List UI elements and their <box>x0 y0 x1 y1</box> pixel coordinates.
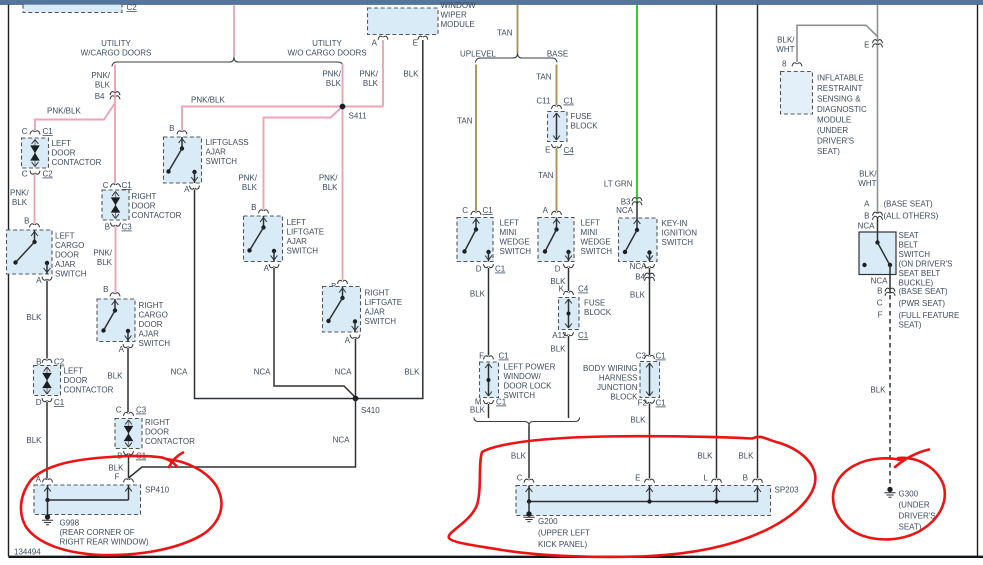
right cargo door ajar switch <box>97 299 135 342</box>
svg-text:C4: C4 <box>564 146 575 155</box>
svg-text:IGNITION: IGNITION <box>662 229 698 238</box>
svg-text:A: A <box>864 200 870 209</box>
svg-text:S411: S411 <box>349 112 368 121</box>
ground G998 <box>42 514 53 525</box>
svg-text:F: F <box>878 311 883 320</box>
svg-text:DOOR: DOOR <box>139 320 163 329</box>
svg-text:BLOCK: BLOCK <box>610 393 638 402</box>
svg-text:JUNCTION: JUNCTION <box>597 383 638 392</box>
body wiring harness junction block <box>640 362 660 398</box>
svg-text:NCA: NCA <box>630 262 648 271</box>
svg-text:TAN: TAN <box>457 117 473 126</box>
svg-text:B: B <box>251 203 256 212</box>
fuse block (lower) <box>559 298 580 330</box>
wire BLK/WHT down to seat belt switch <box>877 47 879 214</box>
wire BLK right cargo switch to lower right door contactor <box>127 348 129 412</box>
svg-text:BLK: BLK <box>630 291 646 300</box>
svg-text:SWITCH: SWITCH <box>581 247 613 256</box>
svg-text:C2: C2 <box>43 170 54 179</box>
svg-text:CONTACTOR: CONTACTOR <box>145 437 195 446</box>
svg-text:AJAR: AJAR <box>365 308 386 317</box>
svg-text:BLK: BLK <box>738 452 754 461</box>
svg-text:B: B <box>103 285 108 294</box>
svg-text:CARGO: CARGO <box>55 241 84 250</box>
right door contactor (lower) <box>115 419 142 449</box>
svg-text:RIGHT: RIGHT <box>132 192 157 201</box>
red annotation circle around G300 <box>833 458 945 540</box>
svg-text:BLK: BLK <box>242 183 258 192</box>
svg-text:LEFT: LEFT <box>581 219 601 228</box>
svg-text:WIPER: WIPER <box>441 11 467 20</box>
svg-text:SWITCH: SWITCH <box>504 391 536 400</box>
wire PNK/BLK brace to S411 <box>342 64 344 107</box>
svg-text:A: A <box>372 39 378 48</box>
wire TAN brace to left mini wedge switch <box>475 65 477 212</box>
left door contactor (upper) <box>22 138 49 168</box>
svg-text:PNK/BLK: PNK/BLK <box>191 96 225 105</box>
svg-text:TAN: TAN <box>497 29 513 38</box>
svg-text:(ALL OTHERS): (ALL OTHERS) <box>884 212 939 221</box>
svg-text:C1: C1 <box>483 206 494 215</box>
svg-text:FUSE: FUSE <box>584 299 605 308</box>
svg-text:LIFTGATE: LIFTGATE <box>287 228 325 237</box>
svg-text:KICK PANEL): KICK PANEL) <box>538 540 588 549</box>
svg-text:C1: C1 <box>499 352 510 361</box>
svg-text:SWITCH: SWITCH <box>662 238 694 247</box>
wire PNK/BLK diagonal branch to left door contactor <box>35 103 115 131</box>
brace UPLEVEL/BASE split <box>476 53 558 63</box>
svg-text:BLK: BLK <box>95 81 111 90</box>
svg-text:C4: C4 <box>578 285 589 294</box>
svg-text:B4: B4 <box>635 273 645 282</box>
svg-text:LEFT POWER: LEFT POWER <box>504 363 556 372</box>
svg-text:PNK/: PNK/ <box>10 189 29 198</box>
svg-text:LEFT: LEFT <box>500 219 520 228</box>
svg-text:WINDOW/: WINDOW/ <box>504 372 542 381</box>
svg-text:LEFT: LEFT <box>64 367 84 376</box>
pink trunk wire from top <box>233 5 235 57</box>
svg-text:DOOR: DOOR <box>52 149 76 158</box>
svg-text:UPLEVEL: UPLEVEL <box>460 50 497 59</box>
wire BLK contactor to SP410 pin F <box>128 455 130 479</box>
svg-text:AJAR: AJAR <box>287 237 308 246</box>
svg-text:(BASE SEAT): (BASE SEAT) <box>899 287 949 296</box>
svg-text:B: B <box>169 124 174 133</box>
key-in ignition switch <box>619 218 658 262</box>
svg-text:MINI: MINI <box>500 228 517 237</box>
wire BLK key-in switch to junction block <box>649 268 651 355</box>
wire BLK/WHT branch to inflatable restraint module pin 8 <box>797 25 878 62</box>
svg-text:DRIVER'S: DRIVER'S <box>817 137 854 146</box>
svg-text:B: B <box>105 223 110 232</box>
svg-text:BLOCK: BLOCK <box>571 122 599 131</box>
svg-text:BLOCK: BLOCK <box>584 308 612 317</box>
svg-text:(UNDER: (UNDER <box>899 501 930 510</box>
svg-text:K: K <box>559 285 565 294</box>
svg-text:SP203: SP203 <box>775 486 800 495</box>
svg-text:RIGHT: RIGHT <box>365 289 390 298</box>
svg-text:SEAT BELT: SEAT BELT <box>899 269 941 278</box>
svg-text:E: E <box>864 41 869 50</box>
splice node S411 <box>340 104 346 110</box>
svg-text:BLK: BLK <box>322 183 338 192</box>
left door contactor (lower) <box>34 366 61 396</box>
svg-text:LIFTGLASS: LIFTGLASS <box>206 138 249 147</box>
svg-text:SWITCH: SWITCH <box>206 157 238 166</box>
svg-text:G998: G998 <box>60 519 80 528</box>
svg-text:SWITCH: SWITCH <box>287 247 319 256</box>
svg-text:BLK: BLK <box>697 452 713 461</box>
wire NCA crimp to key-in switch <box>636 201 638 218</box>
svg-text:CONTACTOR: CONTACTOR <box>52 158 102 167</box>
wire BLK contactor to SP410 pin A <box>46 402 48 479</box>
red annotation circle around SP410/G998 <box>21 456 221 555</box>
svg-text:(UNDER: (UNDER <box>817 126 848 135</box>
svg-text:(PWR SEAT): (PWR SEAT) <box>899 299 946 308</box>
svg-text:A: A <box>345 336 351 345</box>
svg-text:DIAGNOSTIC: DIAGNOSTIC <box>817 105 867 114</box>
svg-text:AJAR: AJAR <box>139 330 160 339</box>
left liftgate ajar switch <box>244 216 283 262</box>
svg-text:A: A <box>264 264 270 273</box>
svg-text:(ON DRIVER'S: (ON DRIVER'S <box>899 260 953 269</box>
svg-text:LT GRN: LT GRN <box>604 180 633 189</box>
svg-text:B4: B4 <box>95 92 105 101</box>
left cargo door ajar switch <box>7 230 53 274</box>
svg-text:SWITCH: SWITCH <box>55 270 87 279</box>
svg-text:TAN: TAN <box>536 73 552 82</box>
svg-text:FUSE: FUSE <box>571 112 592 121</box>
svg-text:BLK: BLK <box>26 436 42 445</box>
svg-text:W/CARGO DOORS: W/CARGO DOORS <box>81 49 152 58</box>
wire TAN brace to fuse block <box>556 65 558 106</box>
svg-text:PNK/: PNK/ <box>91 71 110 80</box>
left mini wedge switch 1 <box>457 218 493 262</box>
svg-text:MINI: MINI <box>581 228 598 237</box>
wire NCA crimp to seat belt switch <box>877 217 879 232</box>
svg-text:B: B <box>877 287 882 296</box>
svg-text:WEDGE: WEDGE <box>581 238 611 247</box>
svg-text:C: C <box>22 127 28 136</box>
fuse block (upper) <box>548 112 568 142</box>
svg-text:RIGHT REAR WINDOW): RIGHT REAR WINDOW) <box>60 538 150 547</box>
svg-text:BASE: BASE <box>547 50 568 59</box>
svg-text:LIFTGATE: LIFTGATE <box>365 298 403 307</box>
svg-text:BLK: BLK <box>511 452 527 461</box>
svg-text:MODULE: MODULE <box>817 116 851 125</box>
svg-text:S410: S410 <box>361 406 380 415</box>
svg-text:BELT: BELT <box>899 241 919 250</box>
svg-text:C: C <box>462 206 468 215</box>
wire BLK wiper module pin E to S410 <box>358 40 423 399</box>
svg-text:E: E <box>413 39 418 48</box>
svg-text:C2: C2 <box>127 3 138 12</box>
svg-text:WINDOW: WINDOW <box>441 1 477 10</box>
svg-text:BLK/: BLK/ <box>859 170 877 179</box>
svg-text:TAN: TAN <box>538 171 554 180</box>
wire PNK/BLK S411 to right liftgate ajar switch <box>342 107 344 281</box>
splice node S410 <box>353 396 359 402</box>
svg-text:PNK/: PNK/ <box>238 174 257 183</box>
svg-text:SWITCH: SWITCH <box>139 339 171 348</box>
svg-text:(BASE SEAT): (BASE SEAT) <box>884 200 934 209</box>
svg-text:BLK: BLK <box>404 368 420 377</box>
svg-text:PNK/: PNK/ <box>359 70 378 79</box>
svg-text:SP410: SP410 <box>145 486 170 495</box>
svg-text:B: B <box>743 474 748 483</box>
ground G300 <box>884 487 895 498</box>
svg-text:G300: G300 <box>899 490 919 499</box>
wire PNK/BLK S411 to liftglass ajar switch <box>182 107 343 131</box>
svg-text:AJAR: AJAR <box>55 260 76 269</box>
svg-text:W/O CARGO DOORS: W/O CARGO DOORS <box>287 49 366 58</box>
svg-text:HARNESS: HARNESS <box>599 374 638 383</box>
wire NCA liftglass to S410 <box>195 190 354 399</box>
brace merging to SP203 pin C <box>474 418 580 426</box>
svg-text:L: L <box>704 474 709 483</box>
svg-text:F: F <box>115 473 120 482</box>
wire BLK dashed to ground G300 <box>889 295 891 487</box>
diagram right border <box>977 5 979 557</box>
wire PNK/BLK B4 down to right door contactor <box>114 95 116 184</box>
right door contactor (upper) <box>102 190 129 220</box>
wire NCA left liftgate to S410 <box>274 268 356 398</box>
svg-text:D: D <box>476 265 482 274</box>
svg-text:B: B <box>24 217 29 226</box>
wire BLK/WHT vertical from top <box>877 5 879 47</box>
svg-text:MODULE: MODULE <box>441 20 475 29</box>
svg-text:WHT: WHT <box>858 179 876 188</box>
svg-text:PNK/: PNK/ <box>93 249 112 258</box>
svg-text:C1: C1 <box>496 398 507 407</box>
svg-text:C: C <box>103 181 109 190</box>
svg-text:A: A <box>543 206 549 215</box>
wire PNK/BLK S411 to left liftgate ajar switch <box>264 107 343 210</box>
svg-text:RIGHT: RIGHT <box>139 301 164 310</box>
svg-text:C1: C1 <box>54 398 65 407</box>
svg-text:C1: C1 <box>43 127 54 136</box>
svg-text:BLK: BLK <box>107 372 123 381</box>
wire BLK vertical to SP203 pin L <box>716 5 718 479</box>
svg-text:DOOR LOCK: DOOR LOCK <box>504 382 553 391</box>
svg-text:C1: C1 <box>495 265 506 274</box>
wire TAN fuse block to right mini wedge switch <box>556 148 558 211</box>
svg-text:DOOR: DOOR <box>64 376 88 385</box>
svg-text:C1: C1 <box>656 399 667 408</box>
svg-text:WEDGE: WEDGE <box>500 238 530 247</box>
svg-text:RESTRAINT: RESTRAINT <box>817 84 862 93</box>
svg-text:BLK: BLK <box>12 198 28 207</box>
svg-text:B: B <box>864 212 869 221</box>
svg-text:NCA: NCA <box>858 222 876 231</box>
diagram bottom border <box>9 556 983 558</box>
wire BLK vertical to SP203 pin B <box>757 5 759 479</box>
svg-text:SEAT): SEAT) <box>899 523 922 532</box>
right liftgate ajar switch <box>323 287 361 333</box>
svg-text:DRIVER'S: DRIVER'S <box>899 512 936 521</box>
svg-text:SEAT): SEAT) <box>817 147 840 156</box>
svg-text:DOOR: DOOR <box>145 428 169 437</box>
svg-text:KEY-IN: KEY-IN <box>662 219 688 228</box>
svg-text:C: C <box>877 299 883 308</box>
svg-text:C3: C3 <box>136 406 147 415</box>
svg-text:AJAR: AJAR <box>206 148 227 157</box>
splice SP410 block <box>34 485 141 516</box>
svg-text:PNK/: PNK/ <box>322 70 341 79</box>
svg-text:C11: C11 <box>536 97 551 106</box>
wire BLK mini wedge to power window switch <box>488 268 490 356</box>
svg-text:BLK: BLK <box>470 406 486 415</box>
svg-text:RIGHT: RIGHT <box>145 418 170 427</box>
svg-text:8: 8 <box>782 60 787 69</box>
svg-text:SEAT: SEAT <box>899 231 919 240</box>
svg-text:C1: C1 <box>564 97 575 106</box>
svg-text:SEAT): SEAT) <box>899 321 922 330</box>
svg-text:DOOR: DOOR <box>132 202 156 211</box>
svg-text:SENSING &: SENSING & <box>817 95 861 104</box>
svg-text:NCA: NCA <box>335 368 353 377</box>
wire BLK power window switch to merge brace <box>488 404 490 418</box>
svg-text:C1: C1 <box>656 352 667 361</box>
svg-text:C: C <box>22 170 28 179</box>
svg-text:NCA: NCA <box>254 368 272 377</box>
svg-text:E: E <box>635 474 640 483</box>
svg-text:BLK: BLK <box>403 70 419 79</box>
wire BLK junction block to SP203 pin E <box>649 404 651 479</box>
wire BLK mini wedge 2 to fuse block 2 <box>568 268 570 291</box>
wire PNK/BLK contactor to right cargo switch <box>115 227 117 293</box>
svg-text:LEFT: LEFT <box>52 139 72 148</box>
wire LT GRN from top to key-in switch <box>636 5 638 201</box>
svg-text:BLK: BLK <box>363 79 379 88</box>
wire PNK/BLK contactor to left cargo switch <box>34 175 36 224</box>
svg-text:E: E <box>545 146 550 155</box>
brace UTILITY split <box>112 57 343 67</box>
svg-text:D: D <box>555 265 561 274</box>
svg-text:C: C <box>517 474 523 483</box>
splice SP203 block <box>516 486 771 516</box>
left power window / door lock switch <box>480 362 499 398</box>
wire BLK fuse block 2 to merge brace <box>568 336 570 418</box>
svg-text:(UPPER LEFT: (UPPER LEFT <box>538 529 590 538</box>
svg-text:C3: C3 <box>122 223 133 232</box>
svg-text:SWITCH: SWITCH <box>899 250 931 259</box>
svg-text:BLK: BLK <box>630 416 646 425</box>
top toolbar bar <box>0 0 983 5</box>
svg-text:UTILITY: UTILITY <box>312 39 342 48</box>
tan trunk wire from top <box>517 5 519 53</box>
svg-text:C: C <box>116 406 122 415</box>
wire BLK cargo switch to lower left door contactor <box>46 281 48 359</box>
svg-text:DOOR: DOOR <box>55 251 79 260</box>
svg-text:SWITCH: SWITCH <box>365 317 397 326</box>
svg-text:(FULL FEATURE: (FULL FEATURE <box>899 311 960 320</box>
wire PNK/BLK left branch to B4 <box>114 65 116 99</box>
window wiper module box <box>368 8 439 35</box>
svg-text:BLK: BLK <box>108 464 124 473</box>
svg-text:C1: C1 <box>122 181 133 190</box>
wire BLK merge brace to SP203 pin C <box>528 426 530 479</box>
partially cut component box top-left <box>23 5 122 13</box>
wire NCA right liftgate to S410 <box>355 339 357 397</box>
svg-text:LEFT: LEFT <box>55 232 75 241</box>
svg-text:BLK: BLK <box>470 290 486 299</box>
svg-text:CONTACTOR: CONTACTOR <box>64 386 114 395</box>
svg-text:LEFT: LEFT <box>287 218 307 227</box>
svg-text:INFLATABLE: INFLATABLE <box>817 74 864 83</box>
svg-text:WHT: WHT <box>776 45 794 54</box>
wire NCA S410 to SP410 pin F <box>129 399 356 479</box>
diagram left border <box>8 5 10 557</box>
left mini wedge switch 2 <box>538 218 574 262</box>
svg-text:NCA: NCA <box>333 436 351 445</box>
svg-text:C1: C1 <box>578 331 589 340</box>
liftglass ajar switch <box>164 137 202 183</box>
svg-text:UTILITY: UTILITY <box>101 39 131 48</box>
svg-text:CONTACTOR: CONTACTOR <box>132 211 182 220</box>
svg-text:PNK/BLK: PNK/BLK <box>47 107 81 116</box>
svg-text:BODY WIRING: BODY WIRING <box>583 364 638 373</box>
svg-text:D: D <box>36 398 42 407</box>
svg-text:A: A <box>36 276 42 285</box>
svg-text:NCA: NCA <box>616 206 634 215</box>
svg-text:BLK: BLK <box>870 386 886 395</box>
svg-text:(REAR CORNER OF: (REAR CORNER OF <box>60 528 135 537</box>
ground G200 <box>523 511 534 522</box>
svg-text:PNK/: PNK/ <box>319 174 338 183</box>
svg-text:134494: 134494 <box>14 548 41 557</box>
svg-text:G200: G200 <box>538 517 558 526</box>
svg-text:BLK: BLK <box>550 345 566 354</box>
svg-text:NCA: NCA <box>171 368 189 377</box>
seat belt switch <box>859 232 896 275</box>
svg-text:BLK: BLK <box>97 258 113 267</box>
wire PNK/BLK wiper module pin A to S411 <box>343 40 384 107</box>
svg-text:CARGO: CARGO <box>139 311 168 320</box>
svg-text:BLK: BLK <box>26 313 42 322</box>
svg-text:BLK/: BLK/ <box>777 36 795 45</box>
svg-text:BLK: BLK <box>326 79 342 88</box>
inflatable restraint sensing and diagnostic module <box>781 72 813 115</box>
svg-text:NCA: NCA <box>871 277 889 286</box>
svg-text:C3: C3 <box>636 352 647 361</box>
red annotation circle around SP203/G200 <box>449 436 816 557</box>
svg-text:SWITCH: SWITCH <box>500 247 532 256</box>
